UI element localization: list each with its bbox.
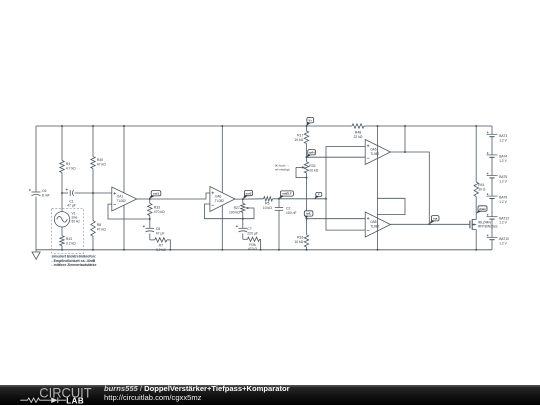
- wire: outELF row: [273, 198, 327, 200]
- svg-text:1.2 V: 1.2 V: [499, 138, 507, 142]
- junction: V+ flag node: [306, 125, 308, 127]
- resistor R33 (feedback): [149, 199, 151, 203]
- CircuitLab logo: [0, 385, 100, 406]
- wire: OA1 V+ pin: [123, 126, 125, 193]
- svg-text:1.2 V: 1.2 V: [499, 241, 507, 245]
- svg-text:3.2 kΩ: 3.2 kΩ: [156, 248, 166, 252]
- svg-text:drain: drain: [479, 207, 486, 211]
- op-amp OA1 TL082: [112, 187, 137, 211]
- resistor R41: [475, 126, 477, 182]
- svg-text:50 Hz: 50 Hz: [72, 219, 81, 223]
- node refH junction: [306, 156, 308, 158]
- svg-text:47 µF: 47 µF: [156, 231, 165, 235]
- svg-text:R40: R40: [97, 158, 103, 162]
- svg-text:10 kΩ: 10 kΩ: [309, 169, 318, 173]
- voltage source V1 (sine 50 Hz): [61, 193, 63, 212]
- resistor R8: [91, 221, 95, 237]
- svg-text:refH: refH: [309, 151, 315, 155]
- svg-text:10 kΩ: 10 kΩ: [294, 240, 303, 244]
- svg-text:out2: out2: [246, 191, 252, 195]
- junction: C1 left / V1 node: [61, 192, 63, 194]
- junction: R4 top / V+ rail: [61, 125, 63, 127]
- ground: [35, 250, 37, 252]
- junction: R40 top / V+ rail: [92, 125, 94, 127]
- svg-text:1.2 V: 1.2 V: [499, 200, 507, 204]
- wire: OA1 output: [137, 198, 150, 200]
- wire: refL to OA8 + input: [307, 218, 366, 220]
- junction: OA1 V- pin / ground rail: [123, 249, 125, 251]
- wire: R4 branch vertical x=62: [61, 126, 63, 161]
- svg-text:TL082: TL082: [215, 199, 224, 203]
- svg-text:R33: R33: [154, 206, 160, 210]
- node out1 flag: [151, 191, 161, 196]
- node outELF flag: [280, 191, 293, 196]
- footer bar: [0, 385, 540, 406]
- junction: M1 source / ground rail: [475, 249, 477, 251]
- capacitor C8 (gain set): [149, 219, 151, 228]
- junction: R32 wiper tie: [306, 177, 308, 179]
- capacitor C2 (lowpass): [278, 199, 280, 208]
- svg-text:10 Ω: 10 Ω: [478, 187, 486, 191]
- battery BAT9 1.2 V: [487, 195, 498, 197]
- svg-text:R48: R48: [355, 131, 361, 135]
- potentiometer R27 (feedback): [242, 199, 244, 203]
- svg-text:TL082: TL082: [370, 152, 379, 156]
- node refL junction: [306, 218, 308, 220]
- logo resistor+diode glyph: [20, 398, 51, 402]
- footer title text: [104, 385, 534, 401]
- battery BAT10 1.2 V: [487, 236, 498, 238]
- resistor R4: [60, 161, 64, 173]
- wire: OA6 V+ pin: [221, 126, 223, 193]
- svg-text:out1: out1: [153, 192, 159, 196]
- op-amp OA8 TL082 (lower comparator): [365, 212, 390, 237]
- resistor R6: [264, 197, 273, 201]
- wire: refH to OA5 - input: [307, 156, 366, 158]
- junction: R7 / ground rail: [169, 249, 171, 251]
- svg-text:1.2 V: 1.2 V: [499, 159, 507, 163]
- node out2 junction: [242, 198, 244, 200]
- svg-text:100 nF: 100 nF: [286, 211, 297, 215]
- svg-text:R27: R27: [234, 206, 240, 210]
- resistor R17: [304, 131, 308, 144]
- junction: signal riser tap: [325, 198, 327, 200]
- svg-text:1.2 V: 1.2 V: [499, 180, 507, 184]
- svg-text:C8: C8: [156, 227, 160, 231]
- dashed box: simulated electret microphone: [52, 209, 84, 254]
- svg-text:470 kΩ: 470 kΩ: [154, 210, 165, 214]
- svg-text:1.2 V: 1.2 V: [499, 221, 507, 225]
- wire: OA6 V- pin: [221, 205, 223, 249]
- resistor R36: [243, 238, 248, 240]
- node refL flag: [304, 211, 313, 216]
- svg-text:BAT4: BAT4: [499, 155, 507, 159]
- svg-text:TL082: TL082: [117, 199, 126, 203]
- node out2 flag: [244, 190, 252, 195]
- node V+ flag: [307, 117, 314, 123]
- wire: signal row out2 to outELF: [243, 198, 264, 200]
- svg-text:TL082: TL082: [370, 224, 379, 228]
- svg-text:BAT5: BAT5: [499, 175, 507, 179]
- svg-text:- Empfindlichkeit ca -40dB: - Empfindlichkeit ca -40dB: [52, 259, 96, 263]
- junction: OA1 feedback node: [149, 218, 151, 220]
- battery BAT4 1.2 V: [487, 154, 498, 156]
- svg-text:out: out: [433, 217, 437, 221]
- svg-text:- mittlere Zimmerlautstärke: - mittlere Zimmerlautstärke: [52, 263, 97, 267]
- svg-text:R17: R17: [297, 134, 303, 138]
- battery BAT5 1.2 V: [487, 175, 498, 177]
- node outELF junction: [278, 198, 280, 200]
- resistor R48 (in top rail): [352, 124, 364, 128]
- svg-text:10 kΩ: 10 kΩ: [263, 206, 272, 210]
- resistor R7: [150, 239, 155, 241]
- svg-text:R16: R16: [297, 236, 303, 240]
- svg-text:V+: V+: [309, 119, 313, 123]
- wire: comparator interstage detour: [378, 198, 406, 214]
- svg-text:BAT3: BAT3: [499, 134, 507, 138]
- svg-text:470 Ω: 470 Ω: [248, 247, 258, 251]
- svg-text:47 kΩ: 47 kΩ: [97, 163, 106, 167]
- svg-text:10 kΩ: 10 kΩ: [294, 138, 303, 142]
- svg-text:47 kΩ: 47 kΩ: [97, 227, 106, 231]
- svg-text:simuliert Elektretmikrofon:: simuliert Elektretmikrofon:: [52, 254, 97, 258]
- wire: OA6 feedback loop to - input: [204, 204, 254, 219]
- svg-text:R41: R41: [478, 183, 484, 187]
- svg-text:C6: C6: [42, 189, 46, 193]
- wire: battery chain right: [491, 126, 493, 134]
- junction: OA6 feedback node: [242, 218, 244, 220]
- svg-text:BAT10: BAT10: [499, 237, 509, 241]
- node refH flag: [308, 150, 316, 155]
- node out junction (comparator outputs): [428, 223, 430, 225]
- svg-text:ref niedrig): ref niedrig): [275, 167, 290, 171]
- transistor M1 IRLZ44N (NMOS): [469, 221, 471, 229]
- svg-text:3.2 kΩ: 3.2 kΩ: [66, 241, 76, 245]
- junction: R48 pull-up / rail: [404, 125, 406, 127]
- junction: R16 bottom / ground rail: [306, 249, 308, 251]
- wire: OA6 output: [235, 198, 243, 200]
- svg-text:4.7 kΩ: 4.7 kΩ: [66, 167, 76, 171]
- svg-text:outELF: outELF: [282, 192, 292, 196]
- node x flag: [316, 192, 322, 196]
- svg-text:100 kΩ: 100 kΩ: [229, 211, 240, 215]
- junction: OA1 V+ pin / rail: [123, 125, 125, 127]
- svg-text:BAT9: BAT9: [499, 196, 507, 200]
- junction: bias divider / OA1 + input: [92, 192, 94, 194]
- node out1 junction: [149, 198, 151, 200]
- wire: signal riser to comparator inputs: [326, 147, 365, 231]
- svg-text:8 mF: 8 mF: [42, 193, 50, 197]
- junction: R43 bottom / ground rail: [61, 249, 63, 251]
- svg-text:47 µF: 47 µF: [67, 204, 76, 208]
- svg-text:R4: R4: [66, 162, 70, 166]
- resistor R16: [306, 219, 308, 235]
- wire: bottom ground rail: [36, 249, 492, 251]
- junction: comparator V- pin / ground rail: [377, 249, 379, 251]
- junction: OA6 V+ pin / rail: [221, 125, 223, 127]
- junction: comparator V+ pin / rail: [377, 125, 379, 127]
- junction: R8 bottom / ground rail: [92, 249, 94, 251]
- svg-text:C2: C2: [286, 206, 290, 210]
- wire: OA5 output to gate bus: [390, 152, 429, 224]
- capacitor C6 (supply decoupling, left): [35, 126, 37, 192]
- svg-text:220 µF: 220 µF: [247, 231, 258, 235]
- junction: OA5 output / pull-up: [404, 151, 406, 153]
- wire: reference chain top: [306, 126, 308, 131]
- node drain flag: [478, 206, 487, 211]
- junction: OA6 V- pin / ground rail: [221, 249, 223, 251]
- wire: R48 pull-up drop: [404, 126, 406, 152]
- svg-text:R6: R6: [265, 202, 269, 206]
- svg-text:R43: R43: [66, 237, 72, 241]
- capacitor C7: [242, 219, 244, 229]
- node out flag: [431, 216, 439, 221]
- junction: R41 top / rail: [475, 125, 477, 127]
- svg-text:RFP30N06LE: RFP30N06LE: [478, 224, 498, 228]
- junction: R36 / ground rail: [260, 249, 262, 251]
- wire: OA1 V- pin: [123, 205, 125, 250]
- wire: OA1 feedback loop to - input: [108, 204, 150, 219]
- svg-text:refL: refL: [306, 212, 312, 216]
- wire: comparator supply pins: [377, 126, 379, 250]
- svg-text:C7: C7: [247, 227, 251, 231]
- svg-text:R32: R32: [309, 164, 315, 168]
- wire: out1 to OA6 + input: [150, 193, 210, 199]
- svg-text:22 kΩ: 22 kΩ: [354, 135, 363, 139]
- resistor R43: [61, 227, 63, 236]
- resistor R40: [91, 157, 95, 169]
- op-amp OA5 TL082 (upper comparator): [365, 140, 390, 165]
- wire: top V+ rail: [36, 125, 352, 127]
- battery BAT3 1.2 V: [487, 133, 498, 135]
- battery BAT12 1.2 V: [487, 216, 498, 218]
- svg-text:LAB: LAB: [66, 396, 84, 405]
- wire: R40/R8 bias divider vertical x=93: [92, 126, 94, 157]
- op-amp OA6 TL082: [210, 187, 235, 212]
- potentiometer R32: [306, 157, 308, 162]
- capacitor C1 (input coupling): [62, 192, 68, 194]
- svg-text:BAT12: BAT12: [499, 216, 509, 220]
- svg-text:R8: R8: [97, 223, 101, 227]
- wire: OA8 output / gate line: [390, 223, 470, 225]
- junction: C2 / ground rail: [278, 249, 280, 251]
